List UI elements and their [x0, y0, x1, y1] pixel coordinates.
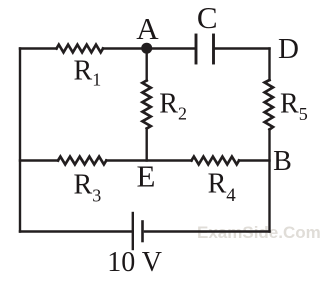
resistor R3 — [58, 157, 106, 165]
resistor R4 — [192, 157, 240, 165]
wire R5 through node B to bottom-right corner — [268, 130, 270, 232]
svg-text:10 V: 10 V — [107, 247, 162, 278]
wire battery to bottom-right corner — [145, 230, 270, 232]
wire corner D down to R5 — [268, 49, 270, 81]
wire top-left corner to R1 — [20, 47, 57, 49]
wire R3 through node E to R4 — [106, 159, 191, 161]
battery 10V short negative plate — [141, 222, 144, 242]
capacitor C left plate — [195, 35, 198, 63]
battery 10V long positive plate — [132, 213, 134, 249]
svg-text:A: A — [136, 11, 159, 46]
wire R2 down to node E — [145, 129, 147, 161]
resistor R5 — [265, 80, 273, 130]
wire left vertical (top-left corner to bottom-left corner) — [19, 49, 21, 232]
wire left rail to R3 — [20, 159, 58, 161]
svg-text:D: D — [278, 33, 299, 65]
node A dot — [141, 43, 152, 54]
svg-text:R5: R5 — [280, 89, 308, 125]
svg-text:C: C — [197, 0, 218, 35]
svg-text:R3: R3 — [74, 169, 102, 205]
svg-text:R2: R2 — [159, 89, 187, 124]
svg-text:R4: R4 — [208, 169, 237, 207]
svg-text:E: E — [137, 159, 156, 194]
wire capacitor C to corner D — [216, 47, 270, 49]
wire node A down to R2 — [145, 49, 147, 81]
svg-text:R1: R1 — [74, 56, 102, 90]
wire bottom-left corner to battery — [20, 230, 131, 232]
svg-text:B: B — [273, 146, 292, 177]
wire R1 to node A to capacitor C — [103, 47, 194, 49]
resistor R1 — [57, 45, 104, 53]
resistor R2 — [142, 81, 150, 129]
capacitor C right plate — [212, 35, 215, 63]
wire R4 to node B — [239, 159, 270, 161]
